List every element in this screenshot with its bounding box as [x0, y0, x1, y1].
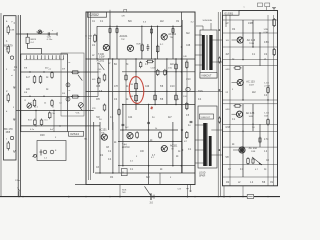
svg-text:C48: C48	[186, 45, 191, 47]
svg-text:V-BKOUT: V-BKOUT	[201, 117, 211, 119]
svg-text:C44: C44	[128, 117, 133, 119]
svg-text:BC 179: BC 179	[4, 128, 13, 131]
svg-text:m: m	[69, 90, 71, 92]
svg-text:C05: C05	[96, 86, 101, 88]
svg-text:15/8: 15/8	[6, 132, 11, 134]
svg-text:14/7: 14/7	[6, 49, 11, 51]
svg-text:1.1B: 1.1B	[264, 113, 269, 115]
svg-text:x: x	[52, 30, 53, 32]
svg-text:0.5B: 0.5B	[264, 32, 269, 34]
svg-text:0.2W: 0.2W	[99, 56, 105, 58]
svg-text:W: W	[172, 149, 174, 151]
svg-text:TW: TW	[101, 132, 104, 134]
svg-text:BUH: BUH	[208, 20, 213, 22]
svg-text:X.C: X.C	[160, 44, 164, 46]
svg-text:T-44: T-44	[122, 144, 127, 146]
svg-text:AC151: AC151	[170, 145, 178, 148]
svg-text:AC151: AC151	[99, 129, 107, 132]
svg-text:1/10: 1/10	[170, 86, 175, 88]
svg-text:AC 132: AC 132	[249, 147, 258, 150]
svg-text:AC 133: AC 133	[247, 39, 256, 42]
svg-text:AC151r: AC151r	[122, 146, 130, 149]
svg-text:0.76u: 0.76u	[47, 39, 53, 41]
svg-text:B.U: B.U	[28, 120, 32, 122]
svg-text:1/2B: 1/2B	[264, 29, 269, 31]
svg-text:LOUD: LOUD	[199, 172, 206, 174]
svg-text:1047: 1047	[249, 84, 255, 86]
svg-text:C49: C49	[145, 86, 150, 88]
svg-text:SPKR: SPKR	[199, 175, 206, 177]
svg-text:01S81: 01S81	[225, 11, 234, 15]
svg-text:AC 133: AC 133	[246, 112, 255, 115]
svg-text:1/2B: 1/2B	[248, 23, 253, 25]
svg-text:VOL: VOL	[76, 113, 81, 115]
svg-text:s: s	[244, 7, 245, 9]
svg-text:AC161: AC161	[168, 32, 176, 36]
svg-text:AC161: AC161	[120, 34, 128, 38]
svg-text:1/10: 1/10	[186, 79, 191, 81]
svg-text:02S82: 02S82	[90, 13, 99, 17]
svg-text:2.7kB: 2.7kB	[264, 85, 270, 87]
svg-text:BC 179: BC 179	[4, 45, 13, 48]
svg-text:0/48: 0/48	[226, 127, 231, 129]
svg-text:1kB: 1kB	[264, 115, 268, 117]
svg-text:0/48: 0/48	[40, 135, 45, 137]
svg-text:AC 133: AC 133	[246, 80, 255, 83]
svg-text:1.1B: 1.1B	[264, 83, 269, 85]
svg-text:TON: TON	[198, 91, 203, 93]
svg-text:m: m	[69, 62, 71, 64]
svg-text:V-BKOUT: V-BKOUT	[201, 76, 212, 78]
svg-text:02S14: 02S14	[70, 132, 79, 136]
svg-text:1/2xx: 1/2xx	[15, 180, 21, 182]
svg-text:0.5B: 0.5B	[264, 42, 269, 44]
svg-text:T016: T016	[249, 43, 255, 45]
